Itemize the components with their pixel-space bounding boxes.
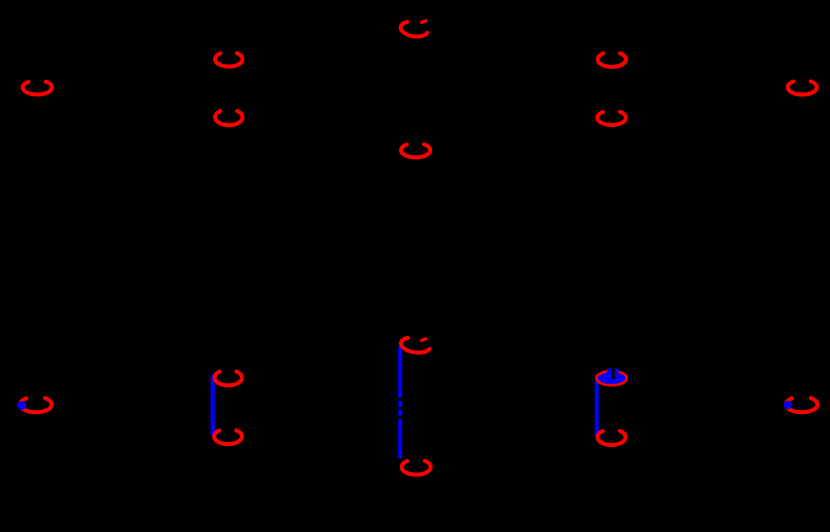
wire: blue dashed cylinder side line (middle lower cluster) bbox=[398, 347, 402, 458]
rotation arrow A1 (top left circle) bbox=[23, 80, 52, 94]
rotation arrow B9 (bottom left circle) bbox=[20, 397, 52, 413]
blue tab on disk rim bbox=[607, 369, 619, 374]
node: blue marked point on right bottom circle bbox=[784, 401, 792, 409]
node: blue marked point on left bottom circle bbox=[17, 401, 26, 410]
rotation arrow A5 (lower circle of middle top) bbox=[401, 143, 430, 157]
black slit marker on disk bbox=[611, 369, 615, 379]
rotation arrow A2 (upper circle of first hole) bbox=[215, 52, 242, 67]
rotation arrow B10a (top circle of left cylinder) bbox=[215, 370, 242, 385]
blue disk with red rim (top of right cylinder) bbox=[596, 371, 626, 385]
wire: blue cylinder side line (right lower cluster) bbox=[595, 381, 599, 434]
rotation arrow B11a (top tilted circle of middle cylinder) bbox=[400, 336, 431, 355]
rotation arrow A4 (top middle tilted circle) bbox=[400, 20, 429, 38]
rotation arrow A3 (lower circle of first hole) bbox=[215, 109, 242, 125]
arrowhead tick of B11a bbox=[422, 339, 426, 341]
arrowhead tick of A4 bbox=[422, 21, 426, 22]
rotation arrow A6 (upper circle of third hole) bbox=[598, 52, 626, 67]
rotation arrow B10b (bottom circle of left cylinder) bbox=[214, 429, 242, 444]
rotation arrow A7 (lower circle of third hole) bbox=[597, 110, 625, 125]
rotation arrow A8 (top right circle) bbox=[788, 80, 817, 95]
wire: blue cylinder side line (left lower cluster) bbox=[211, 377, 215, 434]
rotation arrow B11b (bottom circle of middle cylinder) bbox=[402, 459, 431, 474]
rotation arrow B12b (bottom circle of right cylinder) bbox=[598, 429, 626, 445]
rotation arrow B13 (bottom right circle) bbox=[786, 397, 818, 413]
